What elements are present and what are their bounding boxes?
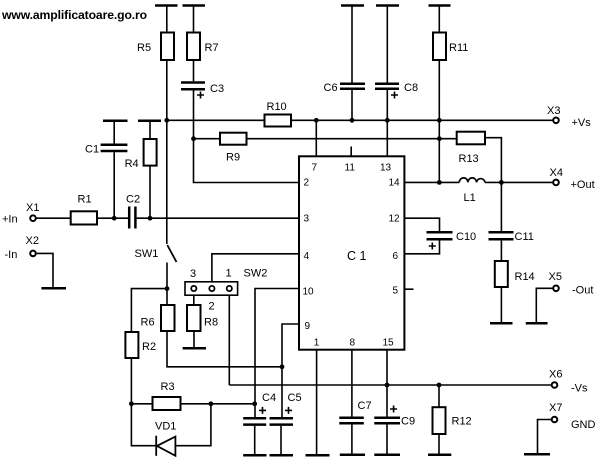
- wire R6 bottom to pin 9 branch: [167, 331, 282, 367]
- svg-text:R7: R7: [205, 42, 219, 54]
- wire C9 bottom to ground: [386, 424, 388, 453]
- inductor L1: [459, 178, 485, 183]
- svg-text:R5: R5: [137, 42, 151, 54]
- wire IC pin 8 down to C7: [351, 350, 353, 417]
- node VD1-R3 junction: [209, 401, 214, 406]
- connector SW2 box: [185, 282, 238, 295]
- wire R4 top bar to body: [149, 121, 151, 139]
- wire -Vs rail down to R12: [438, 385, 440, 407]
- wire R14 bottom to ground: [500, 287, 502, 323]
- svg-text:R10: R10: [267, 101, 287, 113]
- capacitor C8: [375, 84, 399, 89]
- wire R7 bottom to C3: [193, 60, 195, 81]
- svg-text:C2: C2: [126, 194, 140, 206]
- wire R13 left branch: [439, 138, 456, 140]
- wire IC pin 10 left and down to C4: [255, 289, 299, 418]
- svg-text:R12: R12: [452, 416, 472, 428]
- wire C2 to IC pin 3: [136, 217, 299, 219]
- wire R12 bottom to ground: [438, 434, 440, 454]
- node R6-pin9 junction: [280, 364, 285, 369]
- svg-text:15: 15: [383, 338, 395, 349]
- svg-text:R13: R13: [459, 153, 479, 165]
- wire IC pin 12 right and down to C10: [404, 218, 439, 231]
- svg-text:1: 1: [314, 338, 320, 349]
- wire R2 bottom to VD1 cathode: [131, 358, 156, 446]
- wire C7 bottom to ground: [351, 424, 353, 453]
- capacitor C9: [374, 418, 400, 424]
- capacitor C1: [101, 145, 128, 151]
- svg-text:R14: R14: [515, 271, 535, 283]
- wire +Vs rail left segment to R10: [167, 119, 265, 121]
- svg-text:13: 13: [380, 163, 392, 174]
- wire VD1 anode up to R3 line: [175, 404, 211, 446]
- svg-text:14: 14: [389, 178, 401, 189]
- terminal X5: [553, 286, 559, 292]
- wire input line X1 to R1: [37, 217, 71, 219]
- wire X2 to ground: [37, 253, 53, 287]
- svg-text:X4: X4: [550, 167, 563, 179]
- svg-text:+Vs: +Vs: [572, 117, 592, 129]
- capacitor C10: [427, 232, 453, 239]
- resistor R8: [187, 305, 201, 331]
- wire R1 to C2: [97, 217, 128, 219]
- wire R11 bottom to +Vs rail: [438, 60, 440, 120]
- resistor R13: [457, 132, 485, 145]
- svg-text:-In: -In: [5, 249, 18, 261]
- wire SW2 pin 3 down to R8: [193, 291, 195, 305]
- svg-text:R6: R6: [141, 317, 155, 329]
- ground C9: [374, 454, 400, 457]
- ground X2: [41, 287, 66, 290]
- svg-text:11: 11: [345, 163, 356, 174]
- ground C5: [270, 454, 294, 457]
- capacitor C4: [243, 418, 266, 424]
- resistor R6: [161, 305, 175, 331]
- SW2 pin 3 circle: [191, 286, 196, 291]
- wire IC pin 9 left and down to C5: [282, 324, 299, 417]
- svg-text:C10: C10: [456, 231, 476, 243]
- SW2 pin 2 circle: [209, 286, 214, 291]
- svg-text:X6: X6: [549, 369, 562, 381]
- ground IC pin 1: [306, 454, 330, 457]
- capacitor C6: [340, 84, 365, 89]
- svg-text:-Vs: -Vs: [571, 383, 588, 395]
- wire feedback line C3 junction to R9: [194, 138, 221, 140]
- svg-text:GND: GND: [571, 419, 596, 431]
- wire IC pin 15 down to C9: [386, 350, 388, 417]
- svg-text:2: 2: [209, 301, 215, 313]
- wire R13 right down to +Out line: [485, 138, 501, 183]
- resistor R10: [265, 115, 292, 127]
- node C8-rail junction: [385, 118, 390, 123]
- plus sign C8: [391, 92, 398, 99]
- resistor R2: [125, 332, 138, 358]
- wire R3 to C4 branch: [181, 403, 255, 405]
- ground X5: [526, 322, 548, 325]
- svg-text:C11: C11: [515, 231, 534, 243]
- svg-text:C1: C1: [85, 144, 99, 156]
- svg-text:C9: C9: [401, 416, 415, 428]
- plus sign C10: [429, 243, 436, 250]
- svg-text:R4: R4: [125, 158, 139, 170]
- terminal X6: [552, 382, 558, 388]
- ground X7: [524, 453, 550, 456]
- wire R8 bottom to ground: [193, 331, 195, 348]
- svg-text:X1: X1: [26, 202, 39, 214]
- resistor R11: [433, 33, 446, 61]
- svg-text:C7: C7: [358, 400, 372, 412]
- wire C6 bottom to +Vs rail: [351, 90, 353, 120]
- wire IC pin 11 stub: [350, 147, 352, 157]
- ground R12: [428, 454, 451, 457]
- svg-text:R3: R3: [161, 381, 175, 393]
- node rail-R5 junction: [164, 118, 169, 123]
- wire C1 branch top bar to plate: [113, 121, 115, 144]
- SW2 pin 1 circle: [227, 286, 232, 291]
- svg-text:R11: R11: [449, 42, 468, 54]
- svg-text:4: 4: [304, 251, 310, 262]
- terminal X4: [553, 180, 559, 186]
- wire SW2 pin 1 down to -Vs rail: [228, 291, 230, 385]
- wire C3 bottom down to corner and IC pin 2: [194, 91, 300, 183]
- svg-text:R2: R2: [142, 341, 156, 353]
- wire SW2 pin 2 up to IC pin 4: [212, 254, 299, 286]
- svg-text:X5: X5: [549, 271, 562, 283]
- resistor R5: [161, 33, 174, 61]
- wire IC pin 7 to +Vs rail: [315, 120, 317, 156]
- ground C7: [340, 454, 365, 457]
- node +Out-R11branch junction: [437, 180, 442, 185]
- svg-text:C8: C8: [404, 82, 418, 94]
- wire C8 top bar to plate: [386, 6, 388, 83]
- wire vertical R11 junction to +Out line: [438, 120, 440, 182]
- wire C4 bottom to ground: [254, 426, 256, 454]
- svg-text:6: 6: [393, 251, 399, 262]
- svg-text:1: 1: [226, 268, 232, 280]
- terminal X1: [30, 215, 36, 221]
- wire X7 to ground: [538, 420, 552, 454]
- wire +Out junction down to C11: [500, 182, 502, 231]
- terminal bar above C8: [376, 4, 399, 7]
- svg-text:7: 7: [312, 163, 318, 174]
- terminal bar above R4: [138, 120, 161, 123]
- svg-text:SW1: SW1: [135, 248, 159, 260]
- plus sign C9: [390, 406, 397, 413]
- svg-text:10: 10: [303, 287, 315, 298]
- svg-text:+In: +In: [2, 214, 18, 226]
- svg-text:12: 12: [389, 214, 401, 225]
- diode VD1: [155, 436, 157, 456]
- resistor R4: [144, 139, 157, 166]
- resistor R14: [495, 261, 508, 287]
- ground R8: [183, 347, 206, 350]
- svg-text:C 1: C 1: [347, 249, 367, 263]
- resistor R7: [187, 33, 200, 61]
- wire R2 junction to R3: [131, 403, 152, 405]
- wire C10 bottom to IC pin 6: [404, 241, 439, 254]
- node R3-C4 junction: [252, 401, 257, 406]
- terminal X3: [553, 118, 559, 124]
- node R12-rail junction: [437, 383, 442, 388]
- svg-text:X7: X7: [549, 402, 562, 414]
- wire C8 bottom down to IC pin 13: [386, 90, 388, 156]
- node R11-rail junction: [437, 118, 442, 123]
- node pin15-rail junction: [385, 383, 390, 388]
- resistor R12: [433, 407, 446, 434]
- terminal bar above C6: [341, 4, 364, 7]
- svg-text:2: 2: [304, 178, 310, 189]
- node pin7-rail junction: [314, 118, 319, 123]
- wire C6 top bar to plate: [351, 6, 353, 83]
- terminal bar above R5: [155, 4, 178, 7]
- wire C1 bottom to input line: [113, 152, 115, 218]
- wire R9 to R11 junction: [247, 138, 440, 140]
- svg-text:3: 3: [304, 214, 310, 225]
- svg-text:X3: X3: [547, 105, 560, 117]
- svg-text:L1: L1: [464, 192, 476, 204]
- resistor R3: [153, 397, 181, 410]
- plus sign C3: [197, 92, 204, 99]
- capacitor C3: [181, 83, 205, 90]
- wire IC pin 14 +Out line to L1: [404, 181, 459, 183]
- capacitor C2: [129, 207, 135, 229]
- svg-text:3: 3: [190, 268, 196, 280]
- node C3-R9 junction: [191, 136, 196, 141]
- node C1-input junction: [112, 216, 117, 221]
- node R4-input junction: [148, 216, 153, 221]
- node R2-R3 junction: [129, 401, 134, 406]
- wire X5 to ground: [536, 288, 553, 322]
- terminal X7: [552, 417, 558, 423]
- svg-text:5: 5: [393, 286, 399, 297]
- svg-text:R9: R9: [226, 152, 240, 164]
- ground C4: [243, 454, 266, 457]
- wire R5 top bar to body: [166, 6, 168, 33]
- resistor R1: [71, 211, 97, 224]
- wire C11 bottom to R14: [500, 241, 502, 262]
- switch SW1 blade: [167, 245, 176, 262]
- svg-text:R1: R1: [78, 194, 92, 206]
- wire SW1 lower contact down to junction: [166, 263, 168, 306]
- node C6-rail junction: [350, 118, 355, 123]
- plus sign C5: [285, 407, 292, 414]
- IC U1 box: [299, 156, 404, 349]
- node +Out-R13 junction: [499, 180, 504, 185]
- svg-text:C3: C3: [210, 83, 224, 95]
- svg-text:www.amplificatoare.go.ro: www.amplificatoare.go.ro: [1, 8, 147, 22]
- svg-text:SW2: SW2: [244, 268, 268, 280]
- wire R5 bottom down to SW1 upper contact: [166, 60, 168, 244]
- svg-text:X2: X2: [26, 235, 39, 247]
- terminal X2: [30, 251, 36, 257]
- wire R11 top bar to body: [438, 6, 440, 33]
- resistor R9: [220, 133, 247, 145]
- svg-text:C6: C6: [324, 82, 338, 94]
- node SW1-R2 junction: [165, 286, 170, 291]
- terminal bar above C1: [103, 120, 128, 123]
- capacitor C5: [270, 418, 294, 424]
- wire IC pin 1 down to ground: [316, 350, 318, 454]
- wire IC pin 5 stub: [404, 288, 413, 290]
- wire junction left to R2 branch: [131, 289, 167, 332]
- wire C5 bottom to ground: [280, 426, 282, 454]
- svg-text:R8: R8: [204, 317, 218, 329]
- svg-text:VD1: VD1: [155, 421, 176, 433]
- plus sign C4: [259, 407, 266, 414]
- node R9-R13 junction: [437, 136, 442, 141]
- terminal bar above R11: [429, 4, 451, 7]
- wire +Vs rail R10 to X3: [291, 119, 553, 121]
- wire L1 to X4: [485, 181, 553, 183]
- capacitor C7: [339, 418, 364, 424]
- svg-text:8: 8: [350, 338, 356, 349]
- svg-text:C4: C4: [262, 392, 276, 404]
- svg-text:+Out: +Out: [571, 179, 595, 191]
- terminal bar above R7: [183, 4, 206, 7]
- svg-text:C5: C5: [288, 392, 302, 404]
- ground R14: [490, 322, 513, 325]
- svg-text:9: 9: [305, 321, 311, 332]
- wire R4 bottom to input line: [149, 166, 151, 219]
- wire -Vs rail to X6: [229, 384, 551, 386]
- wire R7 top bar to body: [193, 6, 195, 33]
- capacitor C11: [489, 232, 514, 239]
- svg-text:-Out: -Out: [572, 285, 593, 297]
